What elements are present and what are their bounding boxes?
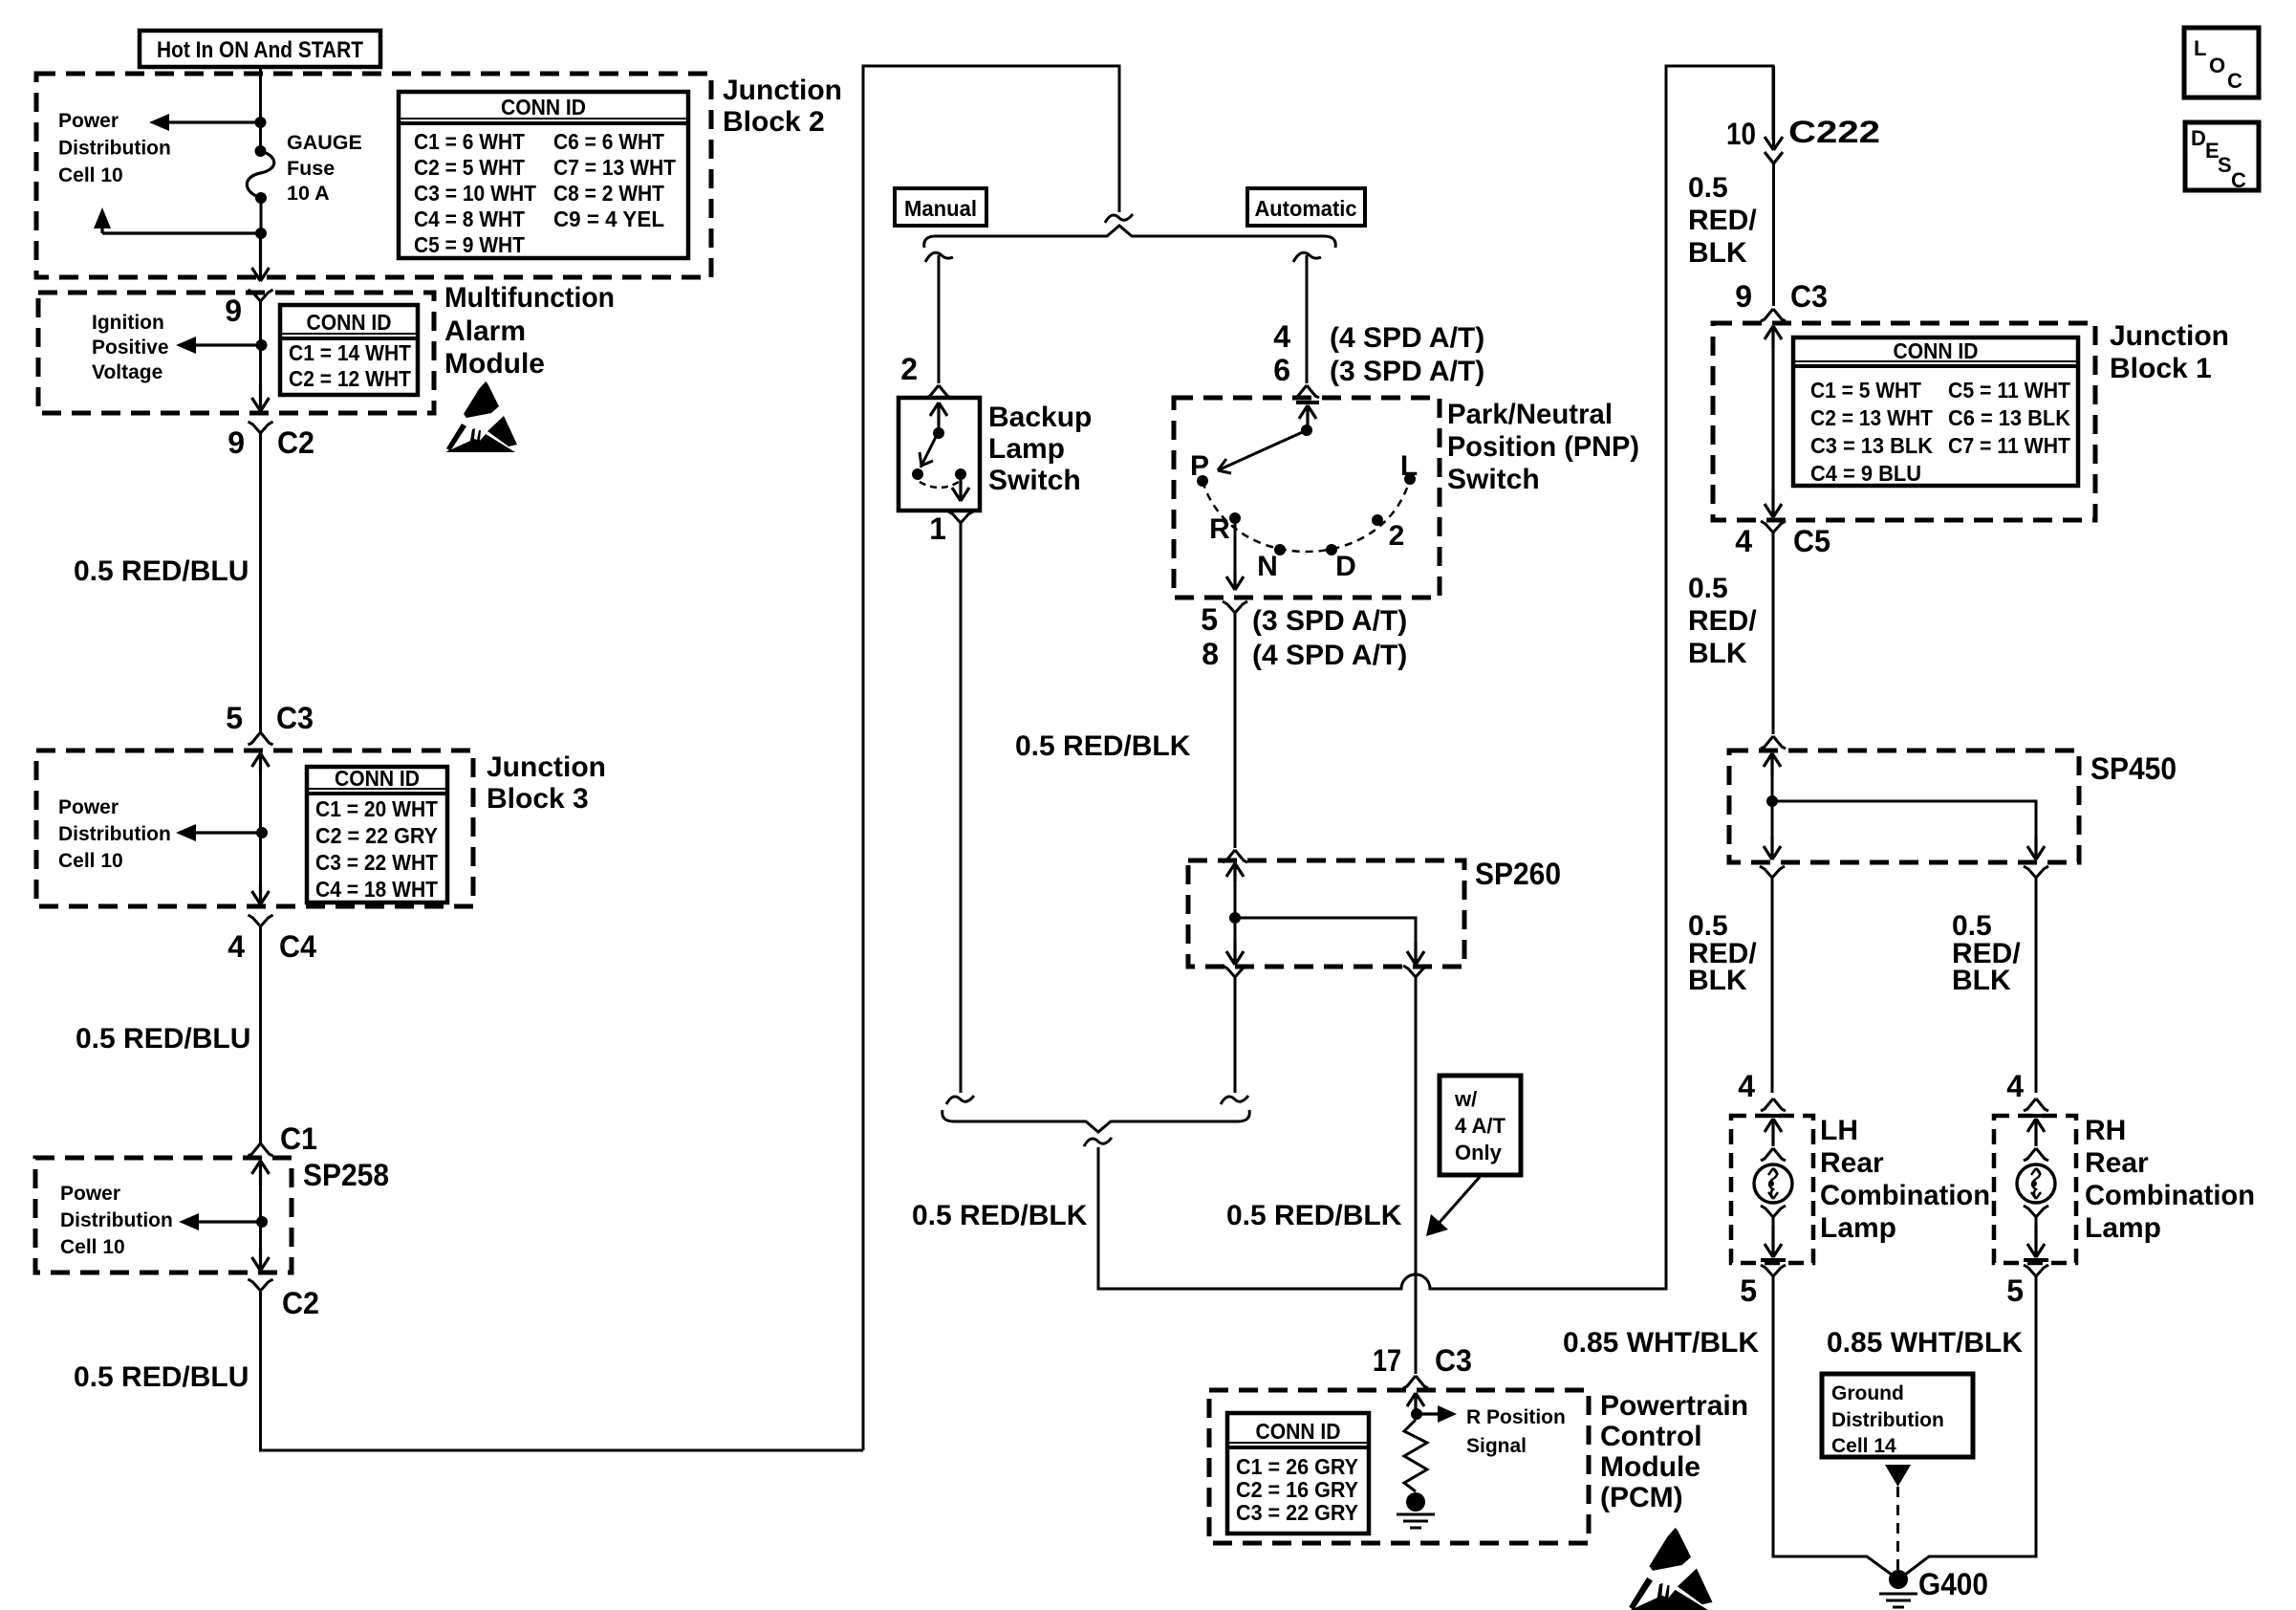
svg-text:C7 = 13 WHT: C7 = 13 WHT [553, 155, 677, 180]
junction block 1 (dashed outline) [1713, 323, 2095, 520]
svg-text:C4: C4 [279, 929, 316, 964]
lamp bulb lower female end [1761, 1206, 1786, 1226]
arrow down to C5 [1765, 490, 1782, 517]
svg-text:S: S [2218, 153, 2232, 177]
label box: Hot In ON And START [140, 31, 380, 67]
arrow down to connector C2 [252, 1249, 270, 1271]
svg-text:9: 9 [227, 425, 245, 460]
pull-up resistor [1404, 1420, 1427, 1491]
svg-text:(3 SPD A/T): (3 SPD A/T) [1252, 605, 1407, 637]
svg-text:(PCM): (PCM) [1600, 1482, 1683, 1513]
junction dot [255, 117, 267, 128]
bulb [2017, 1164, 2055, 1203]
svg-text:Multifunction: Multifunction [444, 282, 615, 314]
svg-text:Lamp: Lamp [1820, 1212, 1896, 1244]
svg-text:C1 = 6 WHT: C1 = 6 WHT [414, 129, 526, 154]
SP260 right output arrow [1407, 942, 1424, 965]
svg-text:C222: C222 [1788, 115, 1880, 149]
svg-text:0.5 RED/BLK: 0.5 RED/BLK [1226, 1200, 1402, 1231]
wire 0.5 RED/BLU (middle) [259, 935, 262, 1143]
arrow down to connector C4 [252, 883, 270, 904]
svg-text:Cell 14: Cell 14 [1831, 1435, 1896, 1457]
svg-text:C3: C3 [1435, 1343, 1472, 1378]
svg-text:5: 5 [226, 701, 243, 735]
switch output arrow down [952, 480, 969, 501]
arrow to Ignition Positive Voltage [193, 343, 260, 346]
automatic branch terminal [1293, 252, 1321, 262]
PCM connector C3 male end [1403, 1376, 1428, 1388]
svg-text:6: 6 [1273, 353, 1290, 387]
contact R dot [1229, 512, 1241, 524]
backup lamp switch pin 2 male end [926, 385, 951, 398]
connector into module, pin 9 [249, 290, 273, 310]
svg-text:L: L [1400, 450, 1418, 482]
svg-text:O: O [2209, 54, 2225, 77]
svg-text:Module: Module [444, 348, 545, 380]
svg-text:C2 = 5 WHT: C2 = 5 WHT [414, 155, 526, 180]
svg-text:0.85 WHT/BLK: 0.85 WHT/BLK [1563, 1327, 1759, 1359]
svg-text:Ignition: Ignition [92, 312, 164, 334]
junction block 3 (dashed outline) [36, 751, 473, 906]
svg-text:0.5: 0.5 [1688, 172, 1728, 204]
backup lamp switch box [899, 398, 980, 511]
svg-text:C2: C2 [282, 1286, 319, 1320]
PNP switch input male end [1294, 385, 1319, 398]
arrow to Power Distribution Cell 10 [196, 1220, 260, 1223]
svg-text:Voltage: Voltage [92, 361, 162, 383]
svg-text:Junction: Junction [2110, 320, 2229, 352]
svg-text:R: R [1209, 513, 1230, 545]
SP260 input male end [1223, 850, 1247, 862]
svg-text:G400: G400 [1918, 1567, 1988, 1601]
lamp terminal bars [2024, 1114, 2048, 1118]
wire inside SP258 [259, 1186, 262, 1249]
SP260 left output arrow [1226, 942, 1244, 965]
CONN ID table of junction block 2 [399, 92, 688, 258]
svg-text:C1 = 20 WHT: C1 = 20 WHT [315, 796, 439, 821]
svg-text:RED/: RED/ [1688, 205, 1757, 236]
svg-text:10 A: 10 A [287, 182, 330, 205]
svg-text:Module: Module [1600, 1451, 1700, 1483]
svg-text:C3: C3 [276, 701, 314, 735]
wire 0.5 RED/BLK to RH lamp [2035, 886, 2038, 1093]
svg-text:C1: C1 [280, 1121, 317, 1156]
svg-text:C5 = 11 WHT: C5 = 11 WHT [1948, 378, 2071, 402]
svg-text:(3 SPD A/T): (3 SPD A/T) [1330, 356, 1484, 387]
svg-text:Distribution: Distribution [58, 823, 171, 845]
CONN ID table of junction block 1 [1793, 337, 2078, 486]
SP450 left output female end [1760, 866, 1785, 886]
svg-text:Switch: Switch [1447, 464, 1540, 495]
svg-text:Distribution: Distribution [60, 1209, 173, 1231]
svg-text:C3 = 22 WHT: C3 = 22 WHT [315, 850, 439, 875]
svg-text:C3 = 13 BLK: C3 = 13 BLK [1810, 433, 1933, 458]
wire 0.5 RED/BLK to right riser and across top [1098, 66, 1773, 1289]
svg-text:L: L [2194, 36, 2206, 60]
LH Rear Combination Lamp [1731, 1116, 1813, 1263]
svg-text:Cell 10: Cell 10 [58, 850, 123, 872]
CONN ID table of junction block 3 [307, 766, 447, 903]
bulb [1754, 1164, 1792, 1203]
svg-text:Distribution: Distribution [58, 138, 171, 160]
svg-text:Position (PNP): Position (PNP) [1447, 431, 1639, 463]
svg-text:0.5 RED/BLU: 0.5 RED/BLU [74, 555, 249, 587]
svg-text:5: 5 [1740, 1273, 1757, 1308]
arrow up to connector C3 [252, 753, 270, 772]
arrow down to PNP output [1226, 574, 1244, 590]
LH lamp pin 5 female end [1761, 1265, 1786, 1285]
svg-text:4: 4 [227, 929, 245, 964]
svg-text:1: 1 [929, 511, 946, 546]
selection brace (Manual / Automatic) [924, 226, 1336, 248]
svg-text:Alarm: Alarm [444, 315, 526, 347]
svg-text:Backup: Backup [988, 402, 1092, 433]
wire 0.5 RED/BLK to SP450 [1772, 541, 1775, 734]
svg-text:Block 3: Block 3 [487, 783, 589, 815]
wire 0.85 WHT/BLK from LH lamp to G400 [1773, 1285, 1892, 1575]
svg-text:9: 9 [1735, 279, 1752, 314]
arrow up to PCM connector [1407, 1393, 1424, 1411]
switch contact dot [955, 468, 966, 480]
svg-text:C7 = 11 WHT: C7 = 11 WHT [1948, 433, 2071, 458]
switch blade [920, 431, 939, 468]
svg-text:CONN ID: CONN ID [307, 310, 392, 335]
svg-text:Junction: Junction [723, 75, 842, 106]
label box: Automatic [1247, 188, 1365, 226]
svg-text:Block 1: Block 1 [2110, 353, 2212, 384]
svg-text:C2: C2 [277, 425, 314, 460]
arrow down to connector C2 [252, 384, 270, 411]
wire from Hot In feed down to fuse [259, 67, 262, 151]
splice SP450 (dashed outline) [1729, 751, 2079, 862]
svg-text:0.5 RED/BLU: 0.5 RED/BLU [74, 1361, 249, 1393]
svg-text:CONN ID: CONN ID [1894, 338, 1979, 363]
svg-text:C6 = 6 WHT: C6 = 6 WHT [553, 129, 665, 154]
svg-text:Manual: Manual [904, 196, 977, 221]
svg-text:2: 2 [1389, 520, 1405, 552]
svg-text:RED/: RED/ [1688, 605, 1757, 637]
lamp bulb connector male end [2024, 1148, 2048, 1161]
splice dot SP450 [1766, 795, 1778, 807]
svg-text:Powertrain: Powertrain [1600, 1390, 1748, 1422]
arrow up into SP260 [1226, 863, 1244, 881]
svg-text:C9 = 4 YEL: C9 = 4 YEL [553, 207, 664, 231]
junction block 1 C3 male end [1761, 309, 1786, 321]
merge brace [942, 1110, 1250, 1132]
svg-text:C3: C3 [1790, 279, 1828, 314]
connector C2 female end [249, 1279, 273, 1299]
svg-text:Power: Power [60, 1183, 120, 1205]
svg-text:C: C [2231, 168, 2246, 192]
contact L dot [1404, 473, 1416, 485]
svg-text:Hot In ON And START: Hot In ON And START [157, 37, 363, 63]
SP450 input male end [1761, 736, 1786, 749]
arrow to Power Distribution Cell 10 [166, 120, 260, 123]
svg-text:Lamp: Lamp [988, 433, 1065, 465]
PNP rotor arm [1218, 430, 1307, 473]
automatic branch wire to PNP switch [1306, 255, 1309, 383]
svg-text:C1 = 5 WHT: C1 = 5 WHT [1810, 378, 1922, 402]
splice SP260 (dashed outline) [1188, 860, 1464, 967]
svg-text:CONN ID: CONN ID [1256, 1419, 1341, 1444]
junction dot [256, 339, 268, 351]
svg-text:C4 = 9 BLU: C4 = 9 BLU [1810, 461, 1921, 486]
lamp output arrow down [1765, 1226, 1782, 1257]
svg-text:N: N [1257, 551, 1278, 582]
wire from R contact [1234, 524, 1237, 574]
junction block 2 (dashed outline) [36, 74, 711, 277]
connector C4 female end [249, 915, 273, 935]
arrow up to C3 [1765, 326, 1782, 348]
lamp terminal bars [1761, 1114, 1786, 1118]
svg-text:0.5 RED/BLK: 0.5 RED/BLK [1015, 730, 1191, 762]
svg-text:SP260: SP260 [1475, 857, 1561, 891]
svg-text:BLK: BLK [1688, 965, 1747, 996]
lamp bulb connector male end [1761, 1148, 1786, 1161]
svg-text:0.5 RED/BLU: 0.5 RED/BLU [76, 1023, 250, 1055]
svg-text:17: 17 [1373, 1343, 1401, 1378]
SP450 left output arrow [1764, 837, 1781, 859]
RH Rear Combination Lamp [1994, 1116, 2076, 1263]
fuse bottom terminal dot [255, 192, 267, 204]
svg-text:5: 5 [1201, 602, 1218, 637]
svg-text:Park/Neutral: Park/Neutral [1447, 399, 1613, 430]
svg-text:Control: Control [1600, 1421, 1702, 1452]
svg-text:Rear: Rear [1820, 1147, 1884, 1179]
wire 0.5 RED/BLK to LH lamp [1771, 886, 1774, 1093]
svg-text:4: 4 [2006, 1069, 2024, 1103]
manual branch wire to backup lamp switch [938, 255, 941, 383]
SP260 left output female end [1223, 966, 1247, 986]
svg-text:SP258: SP258 [303, 1158, 389, 1192]
wire from backup lamp switch pin 1 [960, 532, 963, 1093]
label box: Manual [895, 188, 986, 226]
park/neutral position switch (dashed outline) [1174, 398, 1440, 598]
arrow from ground distribution note [1885, 1465, 1911, 1487]
SP450 right output arrow [2027, 837, 2045, 859]
wire inside multifunction alarm module [259, 310, 262, 384]
SP260 internal wires [1235, 881, 1416, 953]
svg-text:4: 4 [1738, 1069, 1755, 1103]
svg-text:BLK: BLK [1688, 237, 1747, 269]
PNP rotor pivot dot [1301, 424, 1312, 436]
svg-text:C4 = 18 WHT: C4 = 18 WHT [315, 877, 439, 902]
svg-text:4: 4 [1735, 524, 1752, 558]
svg-text:BLK: BLK [1952, 965, 2011, 996]
ground G400 [1889, 1570, 1908, 1589]
wire 0.5 RED/BLK from PNP to SP260 [1234, 621, 1237, 848]
svg-text:C4 = 8 WHT: C4 = 8 WHT [414, 207, 526, 231]
wire from SP260 right output to PCM [1415, 986, 1418, 1374]
powertrain control module (dashed outline) [1209, 1390, 1589, 1543]
arrow to Power Distribution Cell 10 [193, 831, 260, 834]
svg-text:(4 SPD A/T): (4 SPD A/T) [1252, 640, 1407, 671]
wire 0.5 RED/BLK to junction block 1 [1772, 163, 1775, 306]
junction dot [255, 228, 267, 239]
svg-text:w/: w/ [1454, 1087, 1477, 1111]
svg-text:Switch: Switch [988, 465, 1081, 496]
junction dot [256, 1216, 268, 1228]
multifunction alarm module (dashed outline) [38, 293, 434, 413]
svg-text:5: 5 [2006, 1273, 2024, 1308]
svg-text:8: 8 [1202, 637, 1219, 671]
svg-text:4 A/T: 4 A/T [1455, 1114, 1506, 1138]
svg-text:Combination: Combination [1820, 1180, 1990, 1211]
svg-text:Junction: Junction [487, 751, 606, 783]
manual branch terminal [925, 252, 953, 262]
wire from SP260 left output [1234, 986, 1237, 1093]
svg-text:Automatic: Automatic [1255, 196, 1357, 221]
svg-text:C5 = 9 WHT: C5 = 9 WHT [414, 232, 526, 257]
svg-text:Only: Only [1455, 1141, 1503, 1164]
svg-text:Rear: Rear [2085, 1147, 2149, 1179]
ESD symbol (PCM) [1628, 1528, 1713, 1610]
switch travel arc (dashed) [920, 482, 959, 488]
label box: Ground Distribution Cell 14 [1822, 1374, 1973, 1457]
PNP contact arc (dashed) [1202, 479, 1410, 552]
svg-text:Signal: Signal [1466, 1435, 1527, 1457]
svg-text:BLK: BLK [1688, 638, 1747, 669]
splice SP258 (dashed outline) [35, 1158, 292, 1273]
svg-text:Lamp: Lamp [2085, 1212, 2161, 1244]
wire 0.85 WHT/BLK from RH lamp to G400 [1905, 1285, 2036, 1575]
svg-text:C1 = 14 WHT: C1 = 14 WHT [289, 340, 412, 365]
svg-text:C3 = 22 GRY: C3 = 22 GRY [1236, 1500, 1358, 1525]
svg-text:C2 = 22 GRY: C2 = 22 GRY [315, 823, 438, 848]
RH lamp pin 5 female end [2024, 1265, 2048, 1285]
svg-text:0.5: 0.5 [1688, 573, 1728, 604]
arrow up into SP450 [1764, 753, 1781, 776]
svg-text:C6 = 13 BLK: C6 = 13 BLK [1948, 405, 2070, 430]
svg-text:D: D [2191, 126, 2206, 150]
svg-text:9: 9 [225, 294, 242, 328]
arrow up to connector C1 [252, 1161, 270, 1186]
svg-text:SP450: SP450 [2090, 751, 2177, 786]
internal ground [1406, 1492, 1425, 1512]
svg-text:2: 2 [900, 352, 918, 386]
arrow from w/4AT note to wire [1436, 1177, 1480, 1227]
svg-text:Combination: Combination [2085, 1180, 2255, 1211]
DESC reference box [2185, 122, 2259, 190]
svg-text:4: 4 [1273, 319, 1290, 354]
svg-text:10: 10 [1726, 117, 1756, 151]
svg-text:Ground: Ground [1831, 1382, 1904, 1404]
wire 0.5 RED/BLU down and right to riser [261, 1299, 864, 1450]
svg-text:Positive: Positive [92, 337, 169, 359]
PNP input terminal bar [1296, 401, 1319, 404]
connector C3 male end [249, 732, 273, 745]
inline connector C222 (male arrow into female) [1765, 66, 1783, 163]
wire inside junction block 3 [259, 772, 262, 883]
wire below fuse [260, 198, 263, 233]
svg-text:Distribution: Distribution [1831, 1409, 1944, 1431]
svg-text:R Position: R Position [1466, 1406, 1566, 1428]
junction dot [256, 827, 268, 838]
wire inside junction block 1 [1772, 348, 1775, 490]
lamp bulb lower female end [2024, 1206, 2048, 1226]
svg-text:C1 = 26 GRY: C1 = 26 GRY [1236, 1454, 1358, 1479]
svg-text:C2 = 13 WHT: C2 = 13 WHT [1810, 405, 1934, 430]
connector C5 female end [1761, 521, 1786, 541]
wire break [946, 1096, 974, 1104]
SP450 right output female end [2024, 866, 2048, 886]
SP450 internal wires [1772, 776, 2036, 840]
arrow to R Position Signal [1417, 1412, 1440, 1415]
svg-text:RH: RH [2085, 1115, 2126, 1146]
CONN ID table of multifunction alarm module [280, 305, 418, 395]
lamp output arrow down [2027, 1226, 2045, 1257]
LOC reference box [2184, 28, 2259, 98]
svg-text:GAUGE: GAUGE [287, 131, 362, 154]
contact 2 dot [1372, 514, 1383, 526]
CONN ID table of PCM [1227, 1413, 1369, 1534]
connector C1 male end [249, 1143, 273, 1156]
svg-text:LH: LH [1820, 1115, 1858, 1146]
riser wire up and across to transmission branch [863, 66, 1119, 1450]
svg-text:C2 = 12 WHT: C2 = 12 WHT [289, 366, 412, 391]
svg-text:0.5 RED/BLK: 0.5 RED/BLK [912, 1200, 1088, 1231]
arrow to Power Distribution Cell 10 (return) [102, 231, 261, 234]
svg-text:C: C [2227, 69, 2242, 93]
fuse top terminal dot [255, 145, 267, 157]
switch contact dot [912, 468, 923, 480]
LH lamp pin 4 male end [1761, 1099, 1786, 1111]
ESD symbol (multifunction alarm module) [445, 381, 517, 452]
switch contact arrow up [930, 402, 947, 428]
svg-text:(4 SPD A/T): (4 SPD A/T) [1330, 322, 1484, 354]
svg-text:0.85 WHT/BLK: 0.85 WHT/BLK [1827, 1327, 2023, 1359]
svg-text:C2 = 16 GRY: C2 = 16 GRY [1236, 1477, 1358, 1502]
contact N dot [1274, 544, 1286, 555]
wire 0.5 RED/BLU (upper) [259, 442, 262, 732]
svg-text:Power: Power [58, 110, 119, 132]
backup lamp switch pin 1 female end [948, 511, 973, 532]
splice dot SP260 [1229, 912, 1241, 924]
svg-text:C3 = 10 WHT: C3 = 10 WHT [414, 181, 537, 206]
svg-text:C8 = 2 WHT: C8 = 2 WHT [553, 181, 665, 206]
label box: w/ 4 A/T Only [1440, 1076, 1521, 1175]
svg-text:C5: C5 [1793, 524, 1830, 558]
svg-text:CONN ID: CONN ID [335, 766, 420, 791]
contact P dot [1197, 475, 1208, 487]
PNP output female end [1223, 601, 1247, 621]
junction dot [1411, 1408, 1422, 1420]
PNP input arrow up [1299, 405, 1316, 430]
svg-text:CONN ID: CONN ID [501, 95, 586, 120]
wire break below merge brace [1084, 1138, 1112, 1146]
svg-text:Cell 10: Cell 10 [58, 164, 123, 186]
wire break [1221, 1096, 1248, 1104]
switch common dot [933, 427, 944, 439]
RH lamp pin 4 male end [2024, 1099, 2048, 1111]
contact D dot [1326, 544, 1337, 555]
connector C2 female end [249, 422, 273, 442]
lamp input arrow up [2027, 1119, 2045, 1146]
svg-text:Fuse: Fuse [287, 157, 335, 180]
arrow down to module pin 9 [252, 233, 270, 281]
lamp input arrow up [1765, 1119, 1782, 1146]
svg-text:Power: Power [58, 796, 119, 818]
svg-text:Cell 10: Cell 10 [60, 1236, 125, 1258]
SP260 right output female end [1403, 966, 1428, 986]
svg-text:Block 2: Block 2 [723, 106, 825, 138]
svg-text:P: P [1190, 450, 1209, 482]
svg-text:D: D [1335, 551, 1356, 582]
wire break at branch point [1105, 214, 1133, 223]
